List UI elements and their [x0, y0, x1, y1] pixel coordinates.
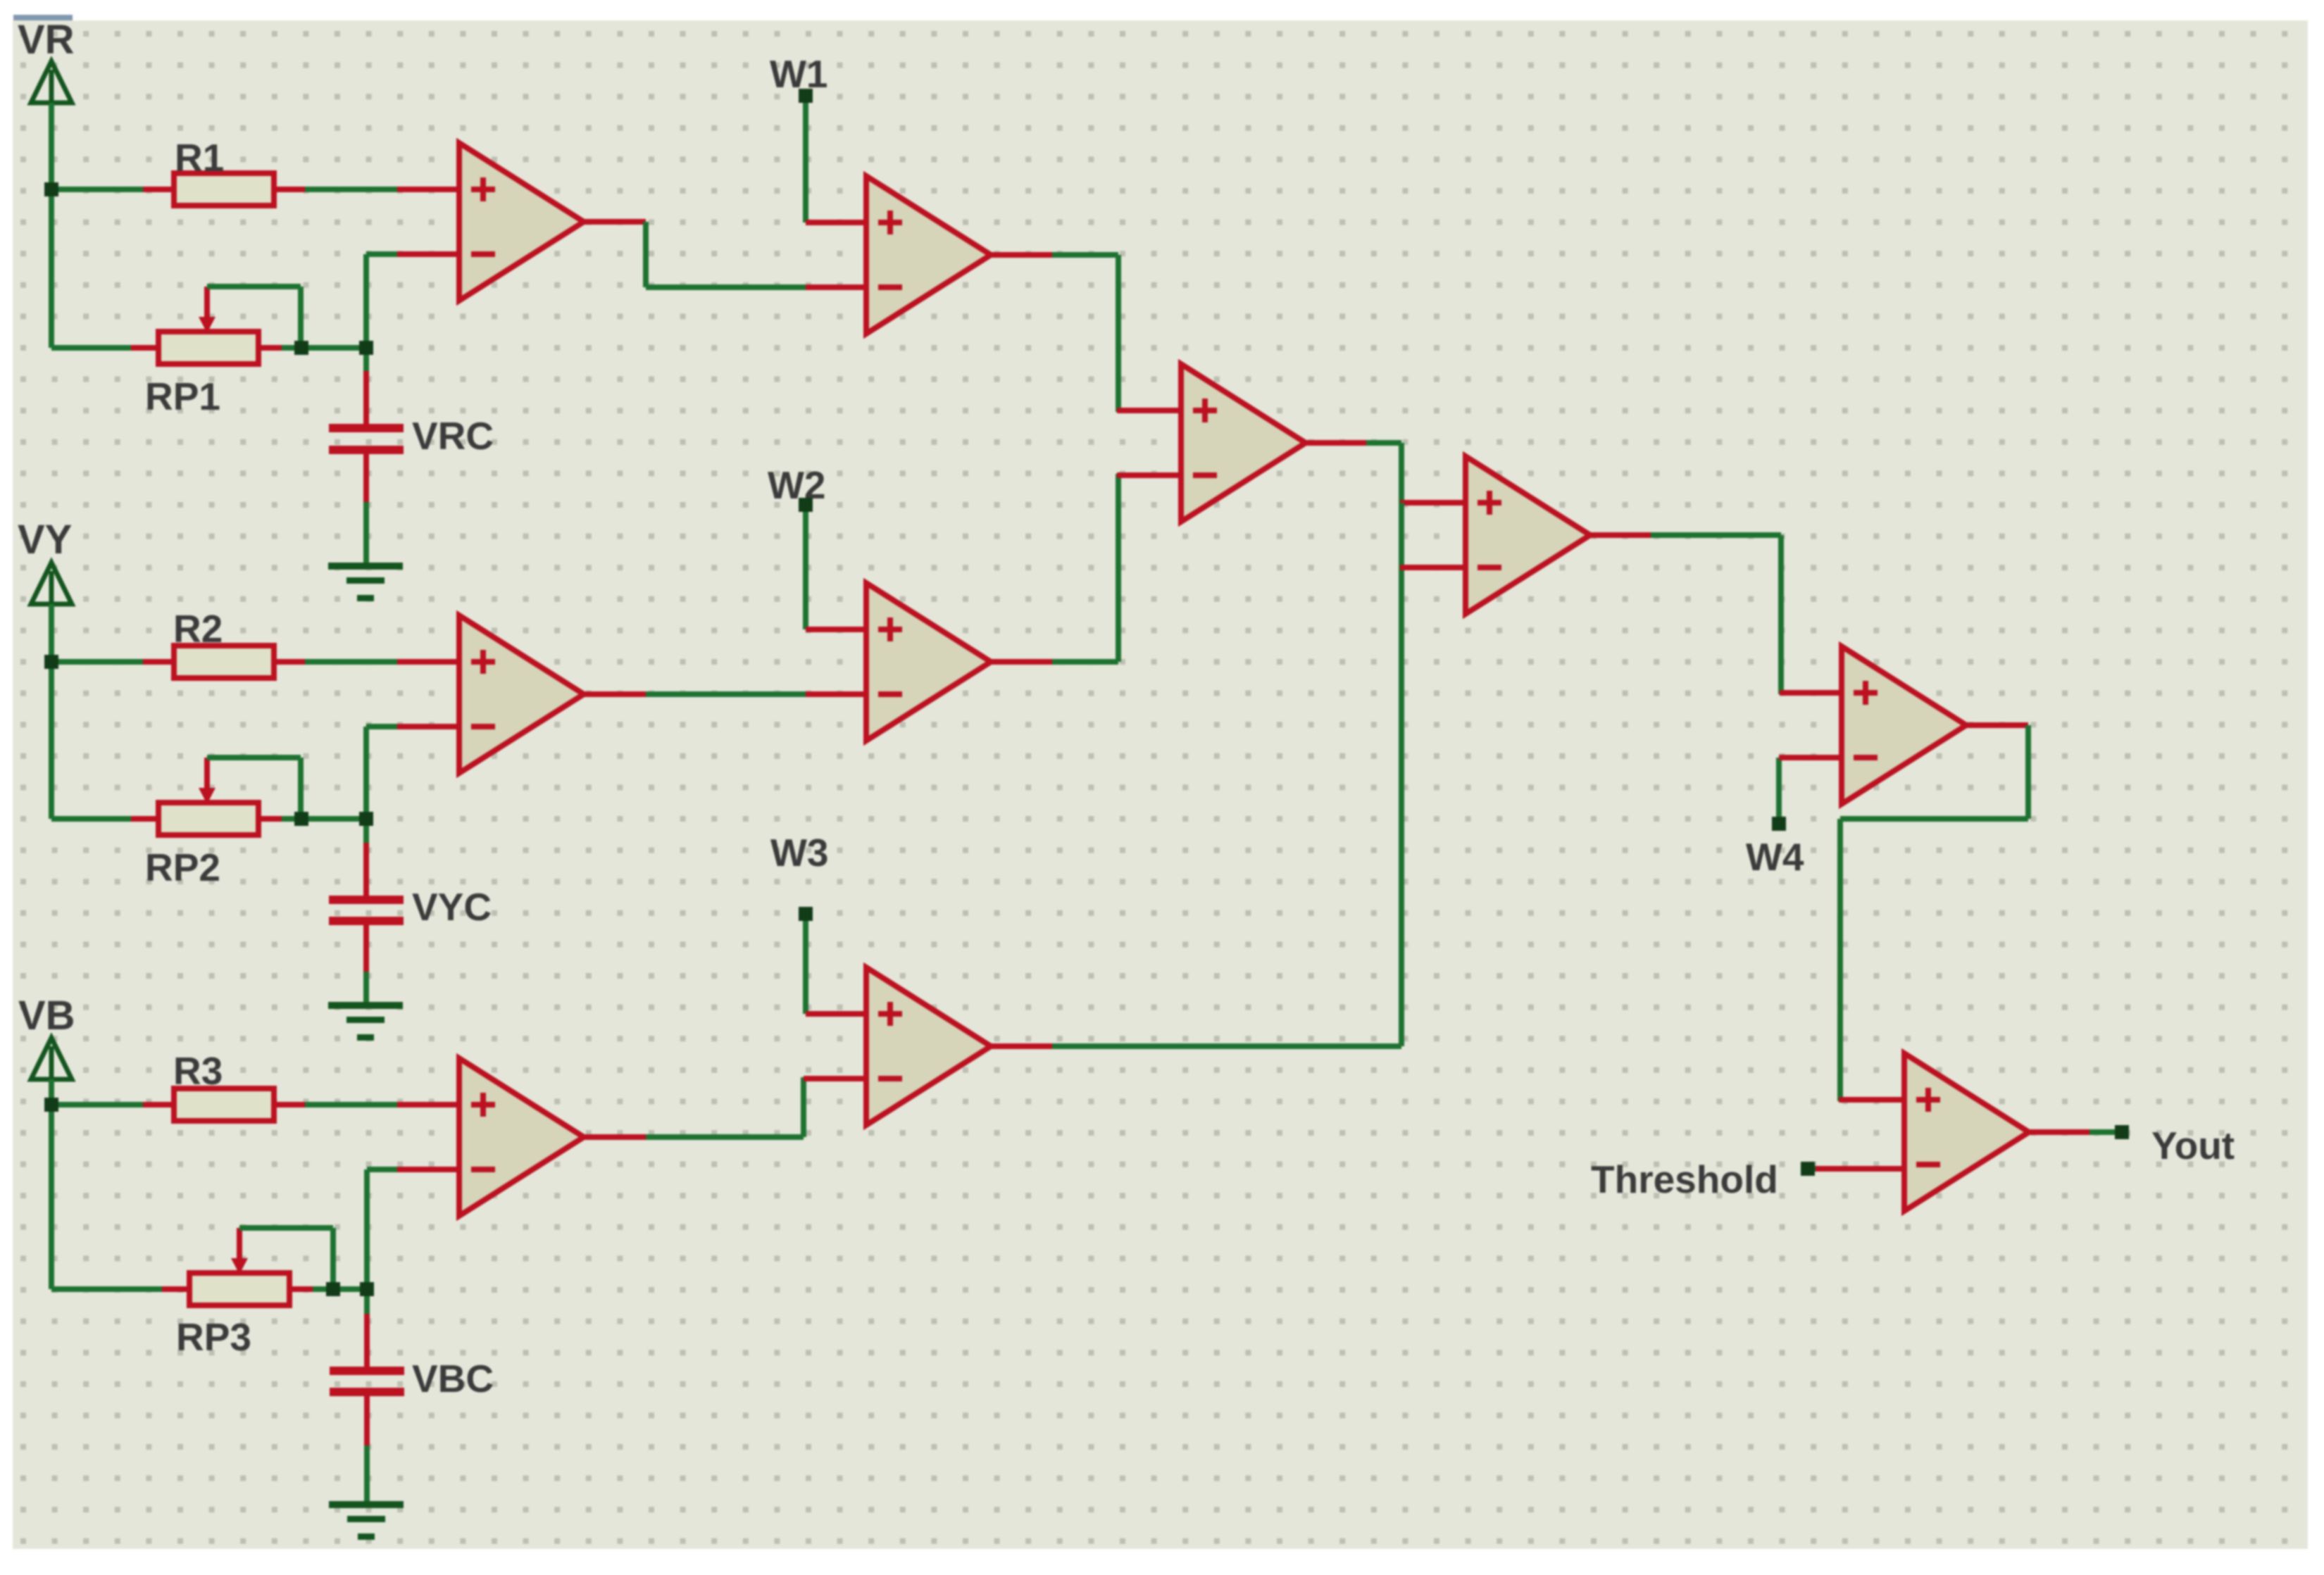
svg-text:R1: R1 [175, 136, 224, 180]
pin R3 right [273, 1102, 305, 1107]
pin U7 output [1306, 440, 1368, 446]
wire RP1 junction run [301, 345, 366, 351]
pin U8 output [1590, 532, 1652, 538]
pin U2 minus [397, 724, 459, 729]
wire RP1 wiper loop [207, 287, 301, 348]
wire capacitor VBC top pin [364, 1289, 370, 1367]
node W3 [799, 907, 813, 921]
pin RP1 left [131, 345, 160, 351]
pin U1 output [584, 219, 646, 225]
wiper RP2 [199, 758, 215, 804]
wire VB row RP3 [51, 1286, 163, 1292]
node RP3 cap junction [360, 1282, 374, 1296]
pin R1 left [143, 187, 175, 192]
wire node column [1399, 503, 1404, 1046]
pin U10 output [2029, 1129, 2091, 1135]
wire VY to R2 [51, 659, 143, 665]
pin U4 minus [806, 284, 866, 290]
pin U3 plus [397, 1102, 459, 1107]
node RP1 wiper junction [294, 341, 308, 355]
wire U6 out run [1052, 1043, 1401, 1049]
wire VY down to RP2 [49, 659, 54, 819]
pin U6 output [991, 1043, 1054, 1049]
wire RP2 to junction [282, 816, 301, 822]
label RP3 [176, 1315, 251, 1359]
wiper RP1 [199, 287, 215, 333]
op-amp U7 [1181, 364, 1306, 522]
ground VRC ground [328, 563, 403, 601]
op-amp U4 [866, 176, 991, 334]
pin U3 minus [397, 1167, 459, 1172]
pin RP1 right [257, 345, 283, 351]
svg-text:RP3: RP3 [176, 1315, 251, 1359]
pin RP2 right [257, 816, 283, 822]
svg-text:VB: VB [18, 993, 75, 1039]
wire VB stem [49, 1079, 54, 1105]
svg-text:Yout: Yout [2151, 1124, 2235, 1167]
wire VB down to RP3 [49, 1102, 54, 1289]
pin U2 plus [397, 659, 459, 665]
node RP2 wiper junction [294, 812, 308, 826]
wire U4 out corner [1052, 255, 1118, 412]
pin U4 plus [806, 220, 866, 225]
wire RP3 wiper loop [239, 1228, 333, 1289]
pin U4 output [991, 252, 1054, 258]
label VB [18, 993, 75, 1039]
node RP3 wiper junction [326, 1282, 340, 1296]
pin U9 minus [1779, 755, 1842, 760]
op-amp U6 [866, 967, 991, 1125]
op-amp U3 [459, 1058, 584, 1216]
wire VR row RP1 [51, 345, 132, 351]
wire W3 down [803, 914, 808, 1014]
wire U8 out corner [1651, 535, 1781, 694]
pin R2 left [143, 659, 175, 665]
pin U5 plus [806, 627, 866, 632]
pin U9 output [1966, 722, 2028, 728]
svg-text:VR: VR [18, 17, 75, 63]
label VYC [412, 885, 492, 929]
potentiometer RP3 body [189, 1273, 289, 1305]
pin U3 output [584, 1134, 646, 1140]
wire U9 feedback [1840, 725, 2028, 1101]
wire U1 out corner [646, 222, 807, 287]
pin U7 plus [1117, 408, 1181, 413]
wire RP3 to junction [313, 1286, 333, 1292]
op-amp U10 [1904, 1053, 2029, 1211]
capacitor VYC plate 1 [329, 896, 404, 904]
pin R2 right [273, 659, 305, 665]
resistor R2 [174, 646, 274, 678]
label R1 [175, 136, 224, 180]
pin U8 plus [1400, 500, 1466, 506]
svg-text:R3: R3 [173, 1049, 223, 1093]
pin RP3 right [288, 1286, 314, 1292]
ground VBC ground [329, 1501, 404, 1540]
label Yout [2151, 1124, 2235, 1167]
label W4 [1746, 835, 1804, 879]
op-amp U5 [866, 583, 991, 741]
label VY [18, 517, 72, 563]
wiper RP3 [231, 1228, 248, 1274]
wire to U2 minus [366, 727, 399, 819]
svg-text:VBC: VBC [412, 1357, 494, 1400]
pin U7 minus [1117, 472, 1181, 478]
label W1 [770, 52, 828, 96]
wire VY row RP2 [51, 816, 132, 822]
wire VY stem [49, 604, 54, 662]
wire VR stem [49, 103, 54, 189]
label W3 [770, 831, 829, 874]
wire R3 to U3 [305, 1102, 399, 1107]
potentiometer RP2 body [158, 803, 258, 835]
svg-text:W3: W3 [770, 831, 829, 874]
pin RP2 left [131, 816, 160, 822]
label VRC [412, 414, 494, 458]
label VBC [412, 1357, 494, 1400]
pin U6 plus [806, 1011, 866, 1017]
wire capacitor VYC bottom pin [363, 925, 369, 1005]
node W1 [799, 89, 813, 103]
pin U6 minus [804, 1076, 866, 1081]
capacitor VBC plate 2 [330, 1388, 404, 1396]
wire U5 out corner [1052, 474, 1118, 662]
svg-text:W4: W4 [1746, 835, 1804, 879]
svg-text:RP2: RP2 [145, 846, 220, 889]
wire RP2 junction run [301, 816, 366, 822]
wire R1 to U1 [305, 187, 399, 192]
wire to U3 minus [367, 1169, 399, 1289]
wire RP1 to junction [282, 345, 301, 351]
node VY junction [44, 655, 58, 669]
label Threshold [1591, 1157, 1778, 1201]
ground VYC ground [328, 1002, 403, 1041]
pin R3 left [143, 1102, 175, 1107]
pin U2 output [584, 691, 646, 697]
pin U1 plus [397, 187, 459, 192]
potentiometer RP1 body [158, 332, 258, 364]
svg-text:VY: VY [18, 517, 72, 563]
wire capacitor VRC bottom pin [363, 454, 369, 565]
node Threshold [1801, 1162, 1815, 1176]
input port arrow VY [31, 563, 72, 607]
node RP1 cap junction [359, 341, 373, 355]
svg-text:W2: W2 [768, 463, 826, 507]
label RP2 [145, 846, 220, 889]
wire VB to R3 [51, 1102, 143, 1107]
capacitor VRC plate 1 [329, 424, 404, 432]
label R3 [173, 1049, 223, 1093]
node VR junction [44, 182, 58, 196]
input port arrow VR [31, 61, 72, 106]
input port arrow VB [31, 1038, 72, 1082]
wire RP3 junction run [333, 1286, 367, 1292]
label VR [18, 17, 75, 63]
svg-text:RP1: RP1 [145, 375, 220, 418]
wire U2 out to U5 [646, 691, 807, 697]
svg-text:VRC: VRC [412, 414, 494, 458]
resistor R3 [174, 1088, 274, 1121]
wire VR to R1 [51, 187, 143, 192]
node RP2 cap junction [359, 812, 373, 826]
node VB junction [44, 1098, 58, 1112]
wire U3 out run [646, 1077, 804, 1137]
capacitor VRC plate 2 [329, 446, 404, 454]
capacitor VYC plate 2 [329, 917, 404, 925]
wire to U1 minus [366, 254, 399, 348]
op-amp U8 [1466, 456, 1590, 614]
node W2 [799, 498, 813, 512]
wire W1 down [803, 96, 808, 222]
capacitor VBC plate 1 [330, 1367, 404, 1375]
wire U7 out corner [1366, 443, 1401, 503]
svg-text:R2: R2 [173, 607, 223, 651]
svg-text:VYC: VYC [412, 885, 492, 929]
pin U10 plus [1839, 1097, 1904, 1103]
wire W2 down [803, 505, 808, 629]
wire RP2 wiper loop [207, 758, 301, 819]
label RP1 [145, 375, 220, 418]
pin U5 output [991, 659, 1054, 665]
wire capacitor VYC top pin [363, 819, 369, 896]
pin U1 minus [397, 251, 459, 257]
pin RP3 left [162, 1286, 191, 1292]
op-amp U2 [459, 615, 584, 773]
node Yout [2115, 1125, 2129, 1139]
label W2 [768, 463, 826, 507]
node W4 [1772, 817, 1786, 831]
wire capacitor VBC bottom pin [364, 1396, 370, 1501]
pin U8 minus [1400, 565, 1466, 570]
pin U9 plus [1780, 690, 1842, 696]
wire Yout stub [2089, 1129, 2118, 1135]
wire W4 up [1776, 758, 1782, 824]
op-amp U9 [1842, 646, 1966, 804]
svg-text:Threshold: Threshold [1591, 1157, 1778, 1201]
pin U10 minus [1816, 1166, 1904, 1172]
wire VR down to RP1 [49, 187, 54, 348]
resistor R1 [174, 173, 274, 206]
wire R2 to U2 [305, 659, 399, 665]
wire Threshold stub [1808, 1166, 1818, 1172]
wire capacitor VRC top pin [363, 348, 369, 424]
label R2 [173, 607, 223, 651]
op-amp U1 [459, 143, 584, 301]
title bar fragment [13, 15, 73, 20]
pin U5 minus [806, 691, 866, 697]
pin R1 right [273, 187, 305, 192]
